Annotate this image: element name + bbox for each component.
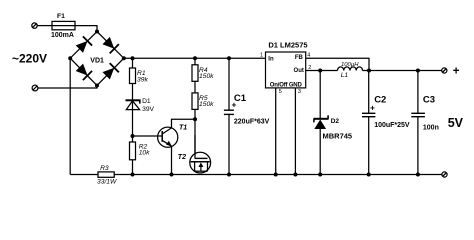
wire C3 bottom	[417, 117, 419, 175]
wire Out	[306, 70, 338, 72]
svg-text:T1: T1	[179, 124, 187, 131]
svg-text:5V: 5V	[448, 116, 464, 130]
inductor L1	[338, 67, 363, 71]
wire FB	[306, 58, 369, 70]
node bridge top	[95, 30, 99, 34]
node pin3 rail	[293, 173, 297, 177]
node D2 rail	[318, 173, 322, 177]
node gate junction	[193, 117, 197, 121]
svg-text:~220V: ~220V	[12, 52, 47, 66]
svg-text:VD1: VD1	[90, 58, 104, 65]
wire dc minus vertical	[69, 58, 71, 174]
bridge diode bottom-right	[102, 63, 119, 80]
node R2 rail	[131, 173, 135, 177]
node bridge right	[122, 56, 126, 60]
svg-text:D1 LM2575: D1 LM2575	[268, 40, 307, 49]
wire R2 to rail	[132, 160, 134, 175]
svg-text:F1: F1	[57, 13, 65, 20]
wire terminal2 to bridge bottom	[38, 86, 97, 89]
wire D2 vertical top	[319, 71, 321, 119]
wire out rail	[363, 70, 442, 72]
node R4 rail	[193, 56, 197, 60]
terminal input bottom	[32, 85, 38, 91]
wire pin5 down	[275, 88, 277, 175]
bridge diode left-bottom	[75, 63, 92, 80]
wire D2 bottom	[319, 129, 321, 175]
capacitor C2	[362, 113, 375, 116]
wire top rail	[124, 57, 266, 59]
svg-text:100mA: 100mA	[51, 32, 74, 39]
svg-text:D2: D2	[331, 118, 340, 125]
svg-text:+: +	[232, 99, 237, 109]
node bridge bottom	[95, 84, 99, 88]
svg-text:39V: 39V	[142, 106, 154, 113]
svg-text:T2: T2	[178, 154, 186, 161]
wire gate vertical	[194, 119, 196, 158]
resistor R4	[192, 65, 198, 82]
node pin5 rail	[274, 173, 278, 177]
node C1 rail	[227, 56, 231, 60]
wire T1 collector	[172, 119, 196, 128]
svg-text:+: +	[453, 66, 460, 78]
wire fuse to bridge top	[75, 26, 97, 32]
wire R4 top	[194, 58, 196, 65]
resistor R5	[192, 93, 198, 110]
node C2 rail	[367, 173, 371, 177]
resistor R1	[130, 68, 136, 84]
svg-text:100n: 100n	[423, 124, 439, 131]
node emitter rail	[170, 173, 174, 177]
node L1 FB C2	[367, 69, 371, 73]
svg-text:In: In	[268, 56, 274, 62]
bridge diode left-top	[75, 36, 92, 53]
wire T1 emitter	[171, 146, 173, 174]
transistor T1	[158, 127, 178, 147]
svg-text:10k: 10k	[139, 150, 150, 157]
svg-text:1: 1	[260, 53, 263, 59]
op IC U1 LM2575 box	[266, 52, 306, 88]
wire bottom rail	[114, 174, 442, 176]
wire base	[133, 135, 163, 137]
svg-text:220uF*63V: 220uF*63V	[234, 119, 270, 126]
node D2 top	[318, 69, 322, 73]
fuse F1	[52, 21, 75, 29]
wire C2 bottom	[368, 117, 370, 175]
svg-text:5: 5	[279, 89, 282, 95]
svg-text:150k: 150k	[199, 101, 214, 108]
svg-text:On/Off GND: On/Off GND	[270, 82, 303, 88]
capacitor C1	[224, 110, 234, 114]
terminal output plus	[442, 68, 447, 73]
wire R1 top	[132, 58, 134, 68]
capacitor C3	[411, 113, 425, 116]
node C3 top	[416, 69, 420, 73]
wire D1 to base node	[132, 100, 134, 136]
node C3 rail	[416, 173, 420, 177]
terminal output minus	[442, 172, 447, 177]
bridge diode top-right	[102, 36, 119, 53]
svg-text:100uF*25V: 100uF*25V	[374, 122, 410, 129]
wire R4 to R5	[194, 81, 196, 93]
svg-text:100µH: 100µH	[341, 62, 359, 68]
transistor T2	[190, 135, 211, 173]
svg-text:R3: R3	[100, 165, 109, 172]
svg-text:33/1W: 33/1W	[97, 178, 117, 185]
svg-text:3: 3	[298, 89, 301, 95]
wire pin3 down	[294, 88, 296, 175]
wire C3 top	[417, 71, 419, 114]
wire C1 top	[228, 58, 230, 110]
wire bottom rail left	[70, 174, 98, 176]
svg-text:Out: Out	[294, 68, 304, 74]
bridge rectifier VD1	[70, 32, 124, 86]
wire node to R2	[132, 136, 134, 142]
svg-text:39k: 39k	[137, 77, 148, 84]
wire terminal to fuse	[37, 25, 52, 27]
resistor R3	[98, 172, 114, 177]
node R1 rail	[131, 56, 135, 60]
node C1 rail bottom	[227, 173, 231, 177]
svg-text:C3: C3	[423, 95, 435, 106]
svg-text:+: +	[370, 102, 375, 112]
wire R5 to gate node	[194, 109, 196, 119]
zener D1	[126, 100, 141, 109]
node bridge left	[68, 56, 72, 60]
resistor R2	[130, 142, 136, 160]
terminal input top	[32, 23, 37, 28]
svg-text:D1: D1	[142, 98, 151, 105]
svg-text:150k: 150k	[199, 73, 214, 80]
diode D2	[314, 115, 329, 129]
wire C2 top	[368, 71, 370, 114]
wire R1 to D1	[132, 84, 134, 101]
node base junction	[131, 134, 135, 138]
svg-text:MBR745: MBR745	[323, 132, 353, 141]
wire C1 bottom	[228, 114, 230, 174]
svg-text:L1: L1	[341, 72, 349, 79]
svg-text:C2: C2	[374, 95, 386, 106]
svg-text:FB: FB	[295, 55, 304, 61]
